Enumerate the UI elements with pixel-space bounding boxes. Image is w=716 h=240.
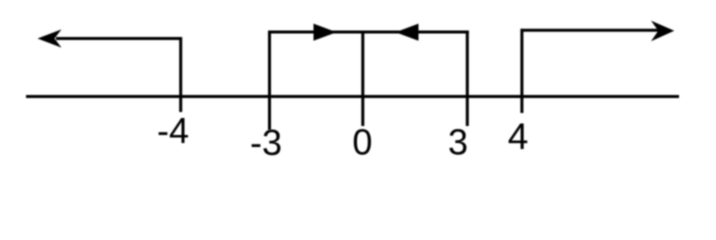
svg-text:-4: -4 xyxy=(157,110,189,151)
number line axis xyxy=(26,95,679,98)
wire: left ray horizontal at y=38.5 xyxy=(56,37,182,40)
wire: vertical riser at 0 xyxy=(361,32,364,126)
wire: vertical riser at -4 xyxy=(179,37,182,112)
wire: vertical riser at 3 xyxy=(466,31,469,126)
arrowhead pointing left (from 3 toward 0) xyxy=(396,24,419,41)
wire: right ray horizontal at y=30.3 xyxy=(521,29,661,32)
arrowhead pointing right (ray to +infinity) xyxy=(651,21,674,42)
wire: top horizontal segment from -3 to 3 xyxy=(268,31,469,34)
wire: vertical riser at -3 xyxy=(268,31,271,130)
arrowhead pointing left (ray to -infinity) xyxy=(38,29,62,47)
svg-text:3: 3 xyxy=(448,122,468,163)
svg-text:-3: -3 xyxy=(250,122,282,163)
svg-text:4: 4 xyxy=(508,116,529,157)
svg-text:0: 0 xyxy=(352,121,372,162)
arrowhead pointing right (from -3 toward 0) xyxy=(314,24,337,41)
wire: vertical riser at 4 xyxy=(520,29,523,113)
